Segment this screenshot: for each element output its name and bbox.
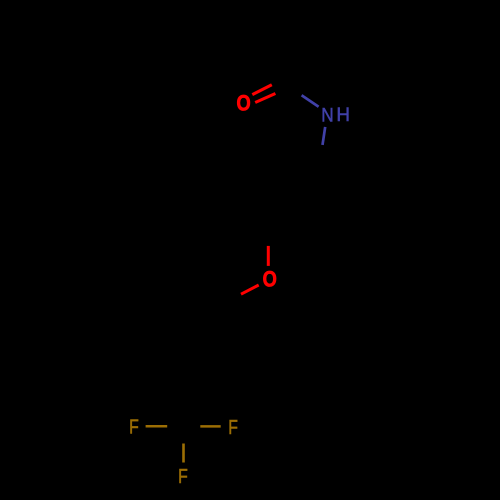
C=O double bond upper line (red half): [252, 85, 271, 95]
svg-text:N: N: [321, 105, 333, 126]
svg-text:F: F: [228, 416, 238, 439]
amide C-N bond (blue half): [302, 95, 319, 107]
C-O ether bond vertical (red half): [267, 246, 270, 266]
N-C bond below NH (blue half): [323, 127, 326, 145]
svg-text:H: H: [336, 105, 350, 126]
C-F right bond (gold half): [200, 425, 220, 428]
svg-text:O: O: [237, 90, 251, 115]
C-F bottom bond (gold half): [182, 444, 185, 463]
svg-text:F: F: [129, 416, 139, 439]
C=O double bond lower line (red half): [255, 94, 275, 103]
O-C ether bond diagonal (red half): [241, 285, 259, 294]
C-F left bond (gold half): [146, 425, 168, 428]
svg-text:F: F: [178, 465, 188, 488]
svg-text:O: O: [263, 266, 277, 291]
